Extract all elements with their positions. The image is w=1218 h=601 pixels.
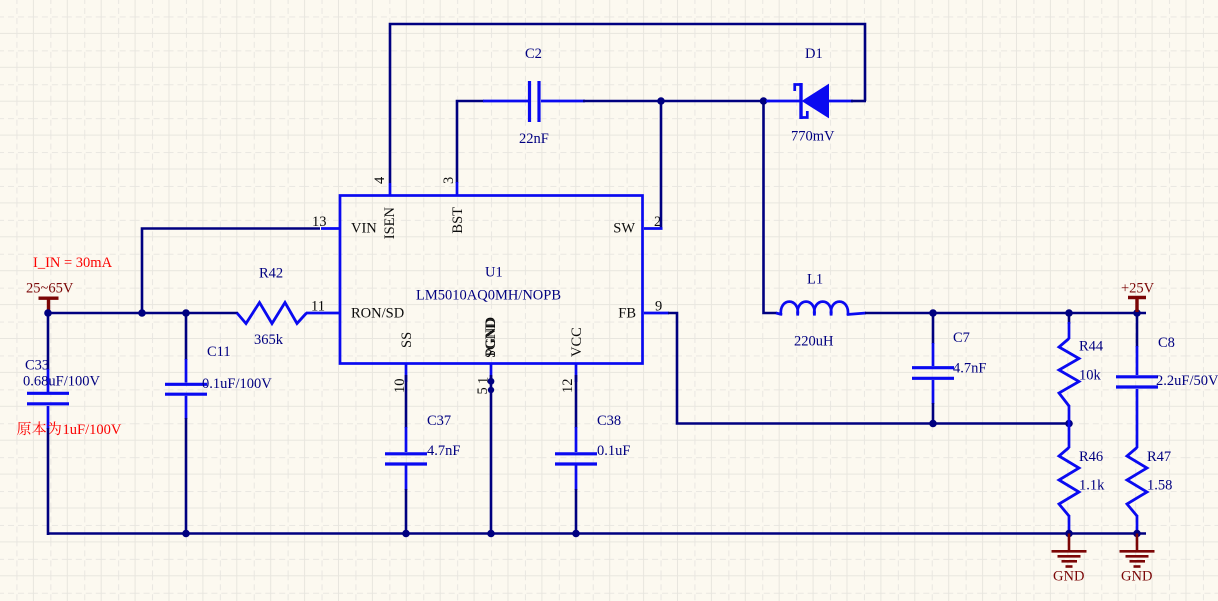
value 4.7nF	[427, 443, 460, 459]
pin name ISEN	[382, 206, 398, 239]
pin number 5	[475, 387, 491, 394]
svg-text:FB: FB	[618, 306, 636, 322]
wire C11 column top	[185, 313, 188, 360]
pin 10 stub (SS)	[405, 363, 408, 382]
svg-text:220uH: 220uH	[794, 334, 834, 350]
wire SS to C37	[405, 375, 408, 428]
pin number 10	[392, 379, 408, 394]
junction bus C37	[402, 530, 410, 538]
junction SW/C2 node	[657, 97, 665, 105]
junction bus R47	[1133, 530, 1141, 538]
value 0.1uF	[597, 443, 630, 459]
label C8	[1158, 335, 1175, 351]
junction bus C11	[182, 530, 190, 538]
svg-text:4.7nF: 4.7nF	[953, 361, 986, 377]
wire top loop ISEN to D1 cathode	[390, 24, 865, 183]
wire C37 bottom	[405, 489, 408, 535]
svg-text:D1: D1	[805, 46, 823, 62]
label C2	[525, 46, 542, 62]
pin 5/1 stub (SGND/PGND)	[490, 363, 493, 378]
ground symbol GND 1	[1052, 534, 1087, 567]
label R46	[1079, 449, 1103, 465]
junction C8 node	[1133, 309, 1141, 317]
value 770mV	[791, 129, 835, 145]
pin number 9	[655, 299, 662, 315]
svg-text:22nF: 22nF	[519, 131, 549, 147]
pin number 3	[441, 177, 457, 184]
junction R44/R46 node	[1065, 420, 1073, 428]
svg-text:12: 12	[560, 379, 576, 394]
svg-text:10k: 10k	[1079, 368, 1102, 384]
IC U1 body	[340, 196, 643, 364]
junction D1/L1 node	[760, 97, 768, 105]
svg-text:4: 4	[372, 176, 388, 184]
junction input node	[44, 309, 52, 317]
left rail wire	[48, 312, 238, 315]
ground bus wire	[48, 532, 1146, 535]
label C11	[207, 344, 231, 360]
label GND 2	[1121, 569, 1152, 585]
svg-text:SW: SW	[613, 221, 635, 237]
wire VIN net	[142, 229, 320, 314]
value 1.58	[1147, 478, 1172, 494]
svg-text:1.1k: 1.1k	[1079, 478, 1105, 494]
svg-text:R46: R46	[1079, 449, 1103, 465]
pin 3 stub (BST)	[456, 182, 459, 196]
power symbol 25~65V	[39, 298, 59, 312]
pin number 11	[311, 299, 325, 315]
pin name RON/SD	[351, 306, 404, 322]
svg-text:BST: BST	[450, 207, 466, 234]
svg-text:R44: R44	[1079, 339, 1104, 355]
label L1	[807, 272, 823, 288]
svg-text:2.2uF/50V: 2.2uF/50V	[1156, 373, 1218, 389]
inductor L1	[776, 302, 866, 316]
pin number 13	[312, 214, 327, 230]
svg-text:I_IN = 30mA: I_IN = 30mA	[33, 255, 113, 271]
svg-text:770mV: 770mV	[791, 129, 835, 145]
junction bus C38	[572, 530, 580, 538]
svg-text:VCC: VCC	[569, 327, 585, 357]
junction VIN node	[138, 309, 146, 317]
pin number 1	[476, 377, 492, 384]
label C7	[953, 330, 970, 346]
designator U1	[485, 265, 503, 281]
pin 9 stub (FB)	[644, 312, 669, 315]
svg-text:C2: C2	[525, 46, 542, 62]
wire C33 column bottom	[47, 428, 50, 535]
pin name SS	[399, 332, 415, 348]
wire C7 bottom	[932, 403, 935, 424]
junction pin5	[488, 378, 495, 385]
capacitor C33	[27, 369, 69, 429]
wire BST elbow	[457, 101, 484, 183]
svg-text:1uF/100V: 1uF/100V	[63, 422, 122, 438]
junction C7 node	[929, 309, 937, 317]
svg-text:C11: C11	[207, 344, 231, 360]
wire L1 left (from D1 node)	[764, 101, 778, 313]
pin 2 stub (SW)	[644, 227, 663, 230]
label R44	[1079, 339, 1104, 355]
label I_IN = 30mA	[33, 255, 113, 271]
wire C38 bottom	[575, 489, 578, 535]
wire D1 right	[851, 100, 866, 103]
label R47	[1147, 449, 1171, 465]
pin 4 stub (ISEN)	[389, 183, 392, 196]
svg-text:C7: C7	[953, 330, 970, 346]
svg-text:+25V: +25V	[1121, 281, 1155, 297]
svg-text:VIN: VIN	[351, 221, 377, 237]
junction bus SGND	[487, 530, 495, 538]
value 10k	[1079, 368, 1102, 384]
capacitor C2	[483, 81, 585, 122]
resistor R44	[1059, 313, 1079, 424]
label 25~65V	[26, 281, 74, 297]
label C38	[597, 413, 621, 429]
label R42	[259, 266, 283, 282]
svg-text:0.1uF/100V: 0.1uF/100V	[202, 376, 272, 392]
svg-text:4.7nF: 4.7nF	[427, 443, 460, 459]
svg-text:ISEN: ISEN	[382, 206, 398, 239]
resistor R42	[237, 303, 341, 324]
svg-text:0.1uF: 0.1uF	[597, 443, 630, 459]
pin names SGND/PGND overlapped	[483, 317, 499, 358]
svg-text:U1: U1	[485, 265, 503, 281]
power symbol +25V	[1128, 298, 1146, 313]
pin name BST	[450, 207, 466, 234]
pin name FB	[618, 306, 636, 322]
label C37	[427, 413, 451, 429]
svg-text:RON/SD: RON/SD	[351, 306, 404, 322]
pin name SW	[613, 221, 635, 237]
pin number 4	[372, 176, 388, 184]
wire C8 top	[1136, 313, 1139, 347]
junction C11 node	[182, 309, 190, 317]
capacitor C37	[385, 427, 427, 490]
svg-text:GND: GND	[1053, 569, 1084, 585]
note 原本为1uF/100V	[17, 421, 61, 435]
svg-text:L1: L1	[807, 272, 823, 288]
svg-text:3: 3	[441, 177, 457, 184]
pin number 2	[654, 214, 661, 230]
pin name VCC	[569, 327, 585, 357]
svg-text:1.58: 1.58	[1147, 478, 1172, 494]
value 2.2uF/50V	[1156, 373, 1218, 389]
svg-text:SS: SS	[399, 332, 415, 348]
pin number 12	[560, 379, 576, 394]
value 0.68uF/100V	[23, 374, 100, 390]
resistor R46	[1059, 424, 1079, 536]
capacitor C8	[1116, 346, 1158, 448]
svg-text:0.68uF/100V: 0.68uF/100V	[23, 374, 100, 390]
value 22nF	[519, 131, 549, 147]
svg-text:C8: C8	[1158, 335, 1175, 351]
junction bus R46	[1065, 530, 1073, 538]
svg-text:25~65V: 25~65V	[26, 281, 74, 297]
svg-text:GND: GND	[1121, 569, 1152, 585]
right rail wire	[865, 312, 1146, 315]
svg-text:C33: C33	[25, 358, 49, 374]
svg-text:C37: C37	[427, 413, 451, 429]
label +25V	[1121, 281, 1155, 297]
value 1.1k	[1079, 478, 1105, 494]
capacitor C38	[555, 427, 597, 490]
capacitor C11	[165, 359, 207, 419]
wire SGND to ground	[490, 375, 493, 535]
wire FB elbow	[668, 313, 1069, 424]
svg-text:C38: C38	[597, 413, 621, 429]
svg-text:PGND: PGND	[483, 317, 499, 356]
wire C7 top	[932, 313, 935, 344]
svg-text:R42: R42	[259, 266, 283, 282]
wire C2 right to D1	[583, 100, 770, 103]
pin 12 stub (VCC)	[575, 363, 578, 382]
svg-text:365k: 365k	[254, 332, 284, 348]
pin name VIN	[351, 221, 377, 237]
label D1	[805, 46, 823, 62]
diode D1	[766, 83, 853, 119]
value 220uH	[794, 334, 834, 350]
value 365k	[254, 332, 284, 348]
resistor R47	[1127, 448, 1147, 536]
junction pin1	[488, 387, 494, 393]
value LM5010AQ0MH/NOPB	[416, 288, 561, 304]
svg-text:13: 13	[312, 214, 327, 230]
svg-text:LM5010AQ0MH/NOPB: LM5010AQ0MH/NOPB	[416, 288, 561, 304]
junction C7/FB node	[929, 420, 937, 428]
value 4.7nF	[953, 361, 986, 377]
wire VCC to C38	[575, 375, 578, 428]
junction R44 node	[1065, 309, 1073, 317]
label GND 1	[1053, 569, 1084, 585]
pin 13 stub (VIN)	[321, 227, 341, 230]
capacitor C7	[912, 343, 954, 404]
label C33	[25, 358, 49, 374]
value 0.1uF/100V	[202, 376, 272, 392]
svg-text:11: 11	[311, 299, 325, 315]
wire C33 column top	[47, 313, 50, 370]
svg-text:R47: R47	[1147, 449, 1171, 465]
wire SW vertical	[660, 101, 663, 229]
wire C11 column bottom	[185, 418, 188, 535]
ground symbol GND 2	[1120, 534, 1155, 567]
